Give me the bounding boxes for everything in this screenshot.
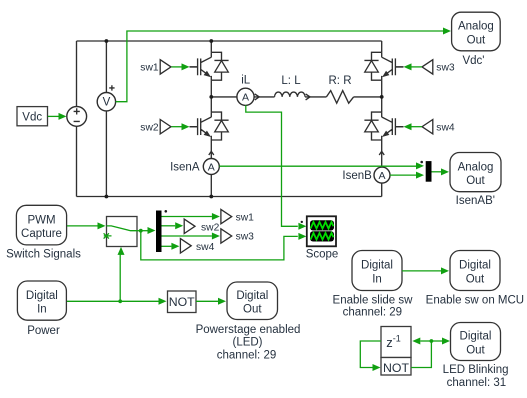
tag out sw4 (180, 239, 191, 253)
resistor R: R (326, 91, 353, 104)
svg-text:Enable sw on MCU: Enable sw on MCU (426, 294, 524, 306)
block Digital Out (Powerstage) (227, 282, 278, 320)
node left mid (209, 95, 213, 99)
wire demux out4 (162, 245, 172, 247)
svg-text:Power: Power (27, 325, 60, 337)
wire voltmeter rail lower (105, 111, 107, 197)
wire junction up to switch (119, 255, 121, 302)
svg-text:Out: Out (466, 344, 485, 356)
wire right leg emitter to IsenB (381, 140, 383, 167)
IGBT sw1 (Q1) (190, 52, 229, 80)
svg-text:sw3: sw3 (436, 63, 455, 74)
wire R to right leg (354, 96, 382, 98)
node bottom bus left leg (209, 195, 213, 199)
wire left leg collector (210, 41, 212, 52)
svg-text:sw4: sw4 (436, 122, 455, 133)
svg-text:L: L: L: L (281, 75, 301, 87)
svg-text:Analog: Analog (458, 21, 494, 33)
block Digital In (Enable slide sw) (352, 251, 402, 291)
svg-text:Switch Signals: Switch Signals (6, 248, 81, 260)
svg-text:IsenA: IsenA (170, 161, 200, 173)
wire Vdc to source (48, 115, 59, 117)
svg-text:LED Blinking: LED Blinking (443, 364, 509, 376)
svg-text:sw4: sw4 (196, 242, 215, 253)
tag out sw3 (221, 229, 232, 243)
wire mid branch iL to L (255, 96, 275, 98)
chevron up IsenA (209, 151, 214, 155)
wire tag sw4 to gate (412, 126, 422, 128)
node power junction (118, 299, 122, 303)
svg-text:NOT: NOT (383, 361, 409, 375)
svg-text:In: In (37, 303, 47, 315)
wire switch to demux (137, 230, 148, 232)
svg-text:Digital: Digital (459, 260, 491, 272)
svg-text:Enable slide sw: Enable slide sw (333, 294, 414, 306)
svg-text:Digital: Digital (361, 260, 393, 272)
node right mid (380, 95, 384, 99)
source Vs (DC) (67, 107, 87, 127)
wire NOT2 out to junction (411, 341, 431, 368)
block Analog Out (IsenAB') (450, 153, 501, 192)
svg-text:channel: 31: channel: 31 (447, 377, 506, 389)
wire switch out down to scope in2 (141, 231, 298, 260)
block Digital Out (Enable sw on MCU) (450, 251, 500, 291)
switch block (107, 217, 138, 247)
svg-text:sw3: sw3 (236, 232, 255, 243)
constant Vdc (17, 107, 48, 126)
wire iL to scope in1 (246, 105, 298, 226)
wire demux out3 (162, 235, 212, 237)
tag out sw2 (184, 219, 195, 233)
logic NOT (168, 291, 197, 313)
voltmeter V (97, 93, 115, 111)
svg-text:In: In (372, 273, 382, 285)
wire z out to NOT2 in (360, 341, 381, 368)
node top bus left leg (209, 39, 213, 43)
wire left leg mid (210, 80, 212, 112)
wire mid branch left (211, 96, 237, 98)
wire Digital In to NOT (67, 300, 159, 302)
svg-text:Powerstage enabled: Powerstage enabled (196, 324, 301, 336)
ammeter IsenB (374, 167, 390, 183)
wire IsenA to mux (219, 165, 416, 167)
demux bar (156, 211, 162, 253)
scope block (307, 216, 336, 246)
wire L to R (305, 96, 326, 98)
wire junction to z in (420, 340, 431, 342)
wire voltmeter to Analog Out Vdc' (116, 31, 443, 102)
wire Digital In to Digital Out (enable) (402, 270, 441, 272)
block PWM Capture (16, 205, 66, 245)
unit delay z-1 (381, 327, 411, 358)
svg-text:A: A (208, 161, 215, 173)
wire IsenB to mux (390, 174, 416, 176)
wire IsenA to bus (210, 175, 212, 197)
svg-text:Out: Out (466, 175, 485, 187)
svg-text:Vdc: Vdc (22, 111, 42, 123)
wire junction to Digital Out LED (431, 340, 442, 342)
node bottom bus voltmeter (105, 195, 109, 199)
node z loop (430, 339, 434, 343)
svg-text:A: A (242, 92, 249, 104)
chevron up IsenB (379, 151, 384, 155)
mux IsenAB (426, 161, 432, 182)
wire PWM to switch (67, 225, 98, 227)
IGBT sw3 (Q3) (364, 52, 403, 80)
chevron after iL (255, 94, 259, 100)
svg-text:channel: 29: channel: 29 (343, 307, 402, 319)
wire right leg collector (381, 41, 383, 52)
svg-text:channel: 29: channel: 29 (217, 349, 276, 361)
wire left rail upper (76, 41, 78, 107)
wire IsenB to bus (381, 183, 383, 196)
tag out sw1 (221, 209, 232, 223)
inductor L: L (275, 92, 306, 97)
svg-text:NOT: NOT (169, 295, 195, 309)
node switch out (139, 229, 143, 233)
svg-text:Capture: Capture (21, 228, 62, 240)
wire tag sw2 to gate (171, 126, 181, 128)
svg-text:PWM: PWM (27, 214, 55, 226)
IGBT sw4 (Q4) (364, 112, 403, 140)
wire mux to Analog Out IsenAB' (432, 171, 442, 173)
svg-text:Out: Out (467, 34, 486, 46)
svg-text:IsenAB': IsenAB' (456, 195, 495, 207)
chevron after L (306, 94, 310, 100)
block Digital In (Power) (17, 281, 66, 320)
svg-text:IsenB: IsenB (342, 170, 372, 182)
svg-text:Scope: Scope (306, 249, 339, 261)
svg-text:Digital: Digital (236, 290, 268, 302)
svg-text:Out: Out (243, 303, 262, 315)
svg-text:sw1: sw1 (140, 63, 159, 74)
wire left leg emitter to IsenA (210, 140, 212, 159)
svg-text:(LED): (LED) (232, 337, 262, 349)
block Digital Out (LED Blinking) (451, 323, 501, 361)
svg-text:sw2: sw2 (140, 122, 159, 133)
logic NOT2 (381, 358, 411, 376)
tag sw1 (160, 60, 171, 74)
node top bus voltmeter (105, 39, 109, 43)
svg-text:sw2: sw2 (201, 223, 220, 234)
wire demux out1 (162, 216, 212, 218)
ammeter iL (237, 88, 254, 105)
svg-text:R: R: R: R (329, 75, 352, 87)
wire demux out2 (162, 225, 176, 227)
wire voltmeter rail upper (105, 41, 107, 93)
tag sw2 (160, 120, 171, 134)
ammeter IsenA (203, 159, 219, 175)
svg-text:sw1: sw1 (236, 212, 255, 223)
svg-text:iL: iL (241, 75, 251, 87)
wire top bus (77, 40, 382, 42)
wire bottom bus (77, 196, 382, 198)
svg-text:Vdc': Vdc' (462, 55, 484, 67)
svg-text:V: V (103, 97, 111, 109)
block Analog Out (Vdc') (452, 12, 501, 51)
svg-text:Analog: Analog (458, 161, 494, 173)
tag sw3 (422, 60, 433, 74)
IGBT sw2 (Q2) (190, 112, 229, 140)
wire left rail lower (76, 126, 78, 196)
svg-text:A: A (378, 170, 385, 182)
tag sw4 (422, 120, 433, 134)
wire tag sw3 to gate (412, 66, 422, 68)
svg-text:Digital: Digital (460, 331, 492, 343)
wire NOT to Digital Out (196, 300, 218, 302)
svg-text:Out: Out (466, 273, 485, 285)
wire right leg mid (381, 80, 383, 112)
svg-text:Digital: Digital (26, 290, 58, 302)
wire tag sw1 to gate (171, 66, 181, 68)
